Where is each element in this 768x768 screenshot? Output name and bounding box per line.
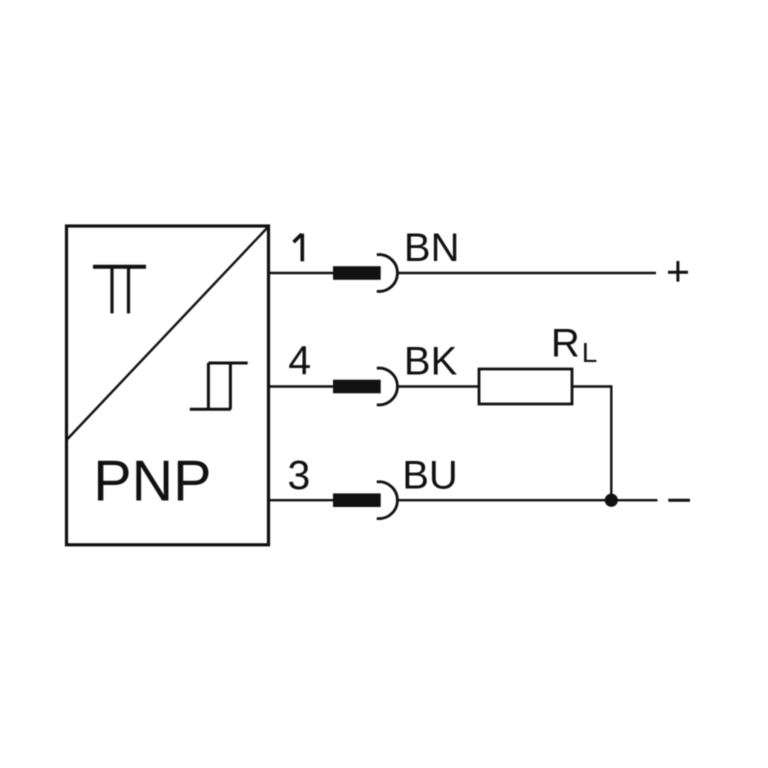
pin 1 label xyxy=(294,234,303,262)
sensor box U1 xyxy=(67,226,269,545)
svg-text:BU: BU xyxy=(402,454,458,498)
hysteresis symbol xyxy=(190,363,248,409)
svg-text:4: 4 xyxy=(288,338,311,384)
diagonal divider xyxy=(67,227,269,441)
connector plug pin4 xyxy=(333,380,381,394)
inductive sensor symbol xyxy=(93,267,146,314)
wire BU to minus xyxy=(399,499,658,501)
minus terminal xyxy=(668,499,690,502)
junction dot xyxy=(605,494,618,507)
svg-text:BK: BK xyxy=(404,340,458,384)
wire BN to plus xyxy=(399,272,657,274)
connector plug pin1 xyxy=(333,266,381,280)
svg-text:3: 3 xyxy=(287,452,310,498)
svg-text:PNP: PNP xyxy=(93,449,211,513)
connector socket arc pin4 xyxy=(377,368,398,405)
wire pin1 from box xyxy=(269,272,341,274)
svg-text:R: R xyxy=(551,322,580,366)
svg-text:BN: BN xyxy=(404,226,460,270)
connector socket arc pin3 xyxy=(377,482,398,519)
svg-text:L: L xyxy=(582,337,598,368)
wire pin3 from box xyxy=(269,499,341,501)
connector plug pin3 xyxy=(333,493,381,507)
plus terminal xyxy=(668,261,688,282)
wire pin4 from box xyxy=(269,385,341,387)
connector socket arc pin1 xyxy=(377,255,398,292)
wire resistor to corner xyxy=(572,387,611,501)
resistor RL xyxy=(479,369,572,404)
wire BK to resistor xyxy=(399,385,480,387)
